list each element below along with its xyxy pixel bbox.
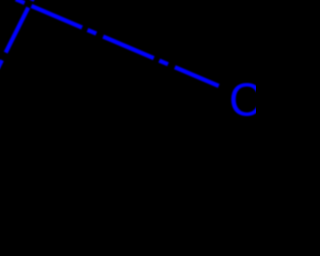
wire: dash-dot line B crossing down-left — [0, 0, 62, 72]
svg-text:C: C — [229, 73, 256, 125]
wire: dash-dot line A to point C — [0, 0, 219, 86]
